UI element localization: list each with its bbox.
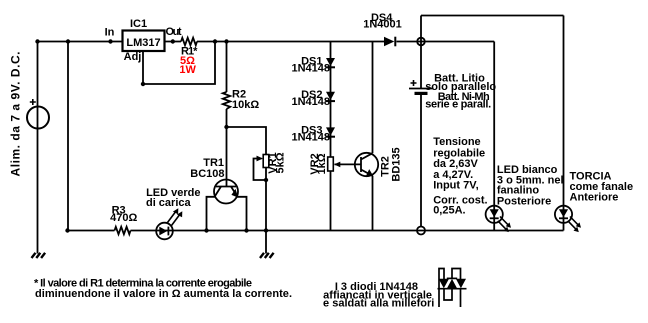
millefori diode sketch (438, 269, 467, 308)
LED bianco posteriore (486, 206, 511, 232)
junction dots (35, 39, 268, 232)
node terminal bottom (417, 227, 425, 235)
source circle alim (27, 107, 49, 129)
wire R2 column (226, 42, 228, 187)
svg-text:BD135: BD135 (391, 147, 403, 181)
note R1 asterisk (34, 278, 292, 301)
svg-text:1W: 1W (179, 64, 196, 76)
svg-text:e saldati alla millefori: e saldati alla millefori (323, 298, 434, 310)
label TORCIA block (570, 171, 634, 204)
svg-text:Out: Out (166, 26, 182, 38)
svg-text:1N4148: 1N4148 (291, 131, 330, 143)
battery symbol (409, 88, 434, 90)
wire VR1 branch (227, 127, 267, 254)
svg-text:di carica: di carica (146, 197, 192, 209)
wire second left column (67, 42, 69, 231)
source plus sign (30, 99, 36, 105)
svg-text:Input 7V,: Input 7V, (433, 180, 478, 192)
wire DS VR2 column (330, 42, 332, 231)
svg-text:diminuendone il valore in Ω au: diminuendone il valore in Ω aumenta la c… (35, 288, 292, 300)
svg-text:Alim. da 7 a 9V. D.C.: Alim. da 7 a 9V. D.C. (9, 52, 23, 177)
diode DS1 (326, 58, 335, 66)
battery plus sign (411, 80, 417, 86)
node terminal top (417, 38, 425, 46)
svg-text:In: In (105, 27, 115, 39)
resistor R3 (115, 227, 131, 234)
svg-text:Posteriore: Posteriore (497, 195, 551, 207)
svg-text:Adj: Adj (124, 51, 142, 63)
label LED bianco block (497, 164, 564, 207)
diode DS4 (384, 37, 394, 47)
potentiometer VR1 body (263, 155, 269, 168)
wire bottom rail (68, 230, 564, 232)
note millefori (323, 281, 434, 310)
transistor Q2 TR2 (355, 153, 378, 176)
svg-text:470Ω: 470Ω (110, 212, 137, 224)
transistor Q1 TR1 (207, 180, 247, 231)
LED torcia anteriore (555, 206, 581, 232)
svg-text:Anteriore: Anteriore (570, 191, 619, 203)
wire TR2 emitter (372, 176, 374, 231)
wire left source column (37, 42, 39, 254)
ground left (32, 253, 46, 258)
wire adj feedback loop (143, 42, 215, 85)
wire right loop vertical (563, 16, 565, 231)
LED verde di carica (156, 208, 182, 239)
potentiometer VR2 body (328, 157, 334, 171)
potentiometer VR1 wiper arrow (257, 156, 264, 162)
wire VR2 wiper to TR2 base (335, 163, 362, 165)
svg-text:serie e parall.: serie e parall. (425, 99, 491, 111)
wire top loop torcia (421, 15, 564, 17)
ground VR1 (260, 253, 274, 258)
op-amp U1 regulator IC1 LM317 box (123, 31, 165, 52)
diode DS3 (326, 127, 335, 135)
svg-text:IC1: IC1 (130, 18, 147, 30)
resistor R1 (181, 38, 197, 45)
svg-text:1N4001: 1N4001 (363, 19, 402, 31)
svg-text:LM317: LM317 (126, 37, 160, 49)
svg-text:5kΩ: 5kΩ (275, 152, 287, 173)
svg-text:1N4148: 1N4148 (291, 62, 330, 74)
svg-text:1N4148: 1N4148 (291, 96, 330, 108)
resistor R2 (223, 92, 230, 109)
label tensione block (433, 136, 487, 217)
svg-text:BC108: BC108 (190, 168, 224, 180)
svg-text:Tensione: Tensione (433, 136, 480, 148)
wire VR1 wiper loop (254, 159, 267, 181)
potentiometer VR2 wiper arrow (334, 162, 340, 168)
svg-text:1kΩ: 1kΩ (316, 153, 328, 174)
svg-text:10kΩ: 10kΩ (232, 99, 259, 111)
wire top rail (38, 41, 495, 43)
wire led posteriore vertical (493, 42, 495, 231)
diode DS2 (326, 92, 335, 100)
wire TR2 collector (372, 42, 374, 154)
svg-text:0,25A.: 0,25A. (433, 205, 465, 217)
wire battery column (420, 16, 422, 227)
